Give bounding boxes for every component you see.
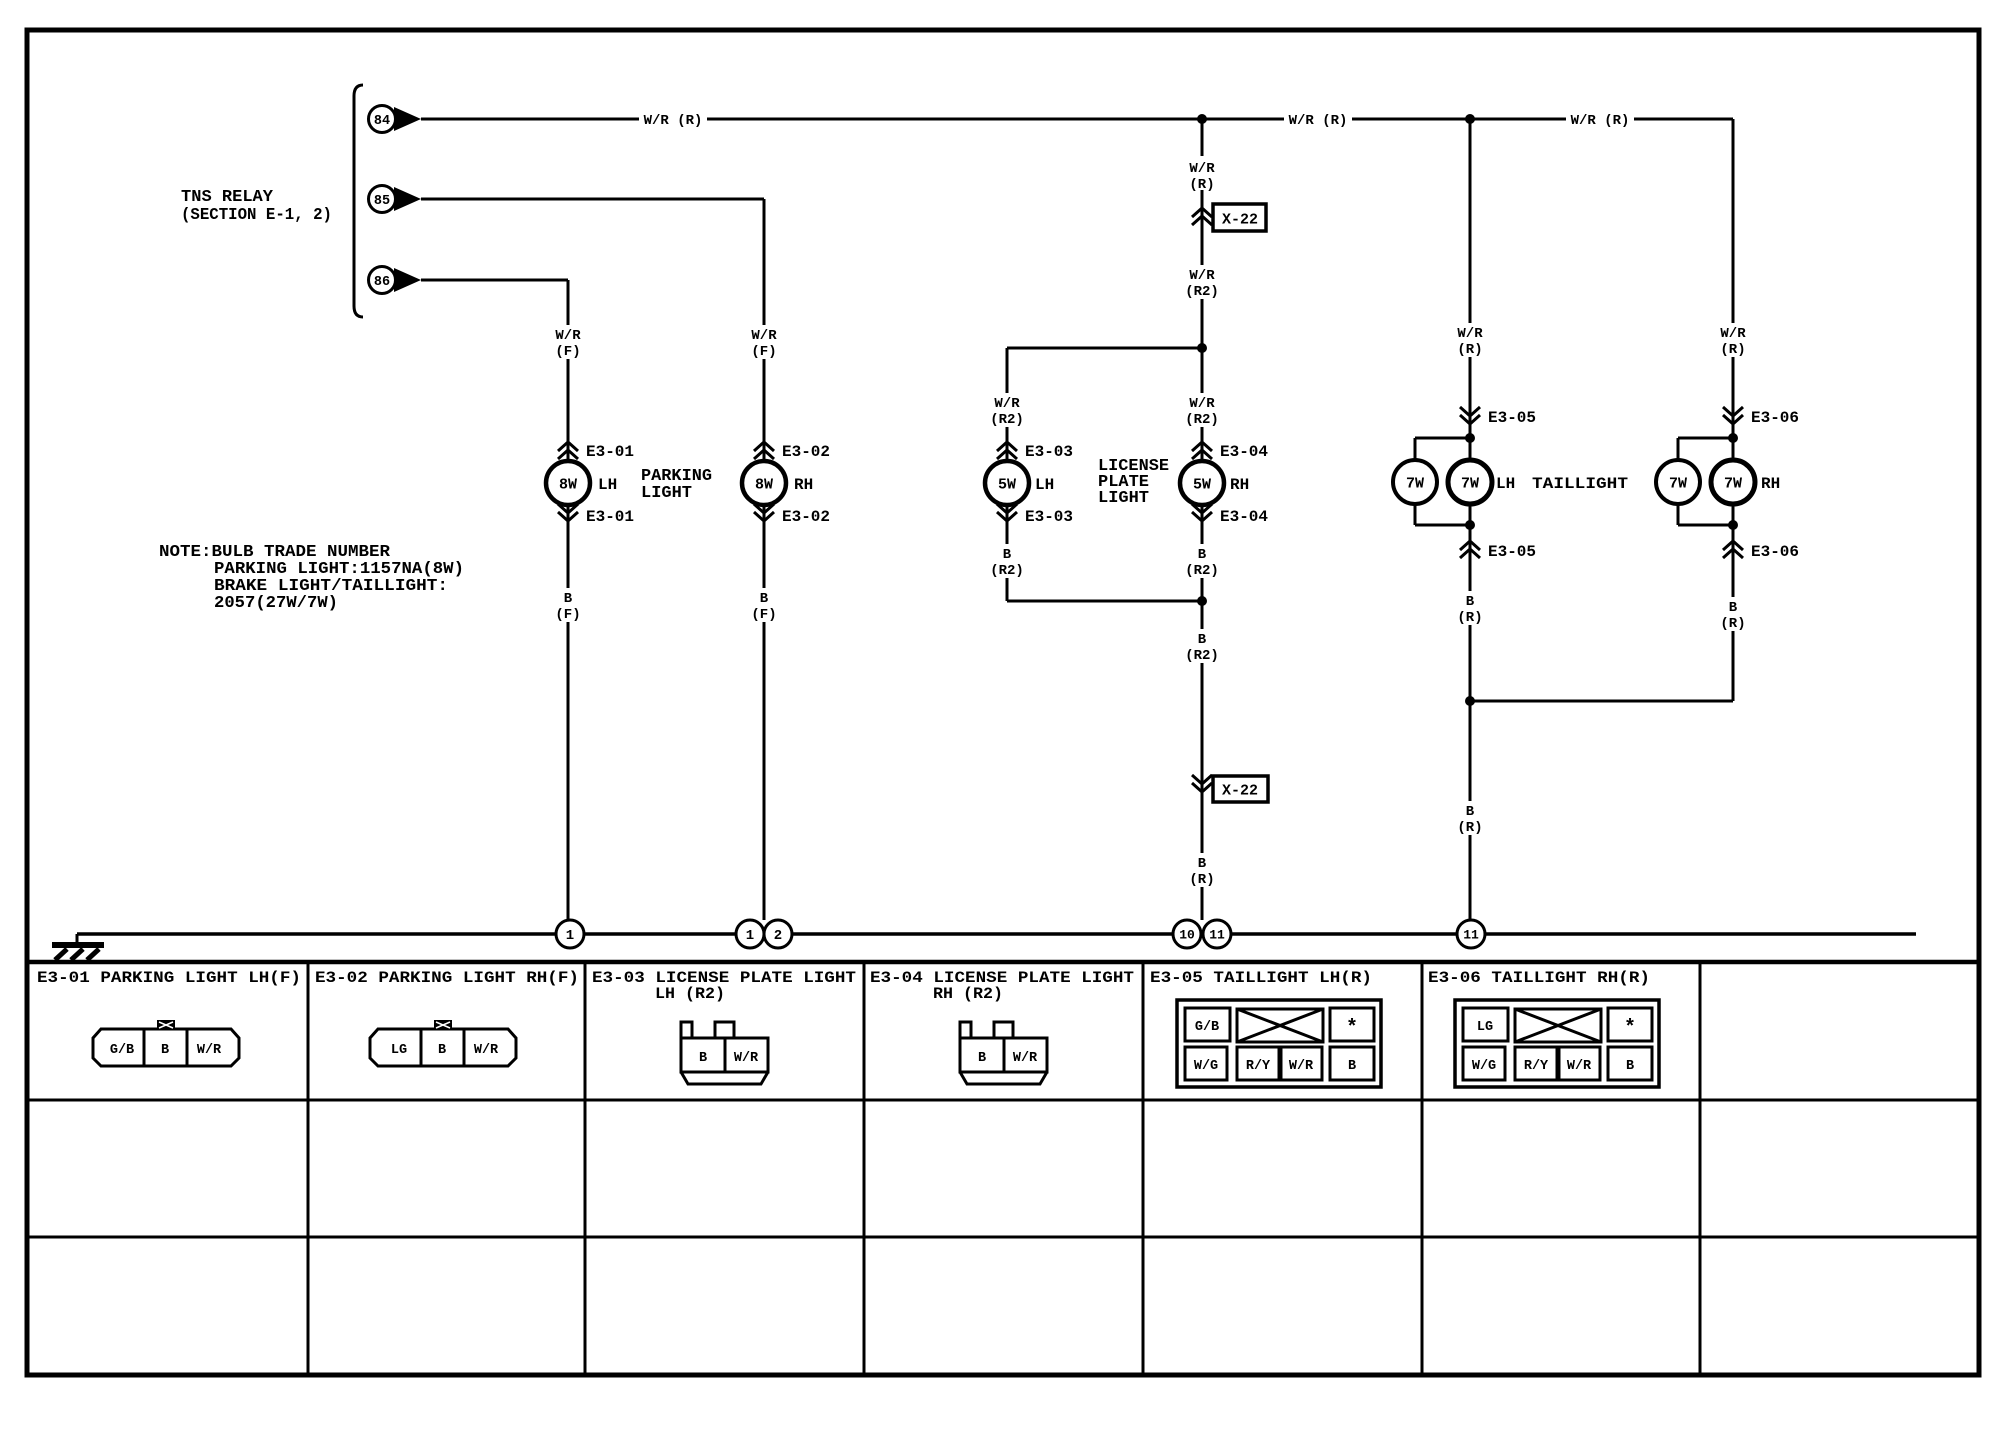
svg-text:(R2): (R2): [1185, 284, 1219, 300]
svg-text:E3-05 TAILLIGHT LH(R): E3-05 TAILLIGHT LH(R): [1150, 969, 1372, 987]
svg-text:B: B: [564, 591, 573, 607]
svg-text:W/R (R): W/R (R): [1289, 113, 1348, 129]
svg-text:*: *: [1624, 1017, 1636, 1040]
svg-text:TNS RELAY: TNS RELAY: [181, 188, 274, 207]
connector X-22 lower: [1192, 775, 1212, 784]
svg-text:(F): (F): [555, 344, 580, 360]
svg-text:W/R: W/R: [1720, 326, 1746, 342]
bulb 8W parking light RH: [742, 461, 786, 505]
svg-text:W/G: W/G: [1194, 1059, 1218, 1074]
svg-text:E3-06 TAILLIGHT RH(R): E3-06 TAILLIGHT RH(R): [1428, 969, 1650, 987]
svg-text:RH: RH: [1761, 475, 1780, 493]
junction taillight LH bulbs: [1465, 433, 1475, 443]
junction taillight RH bulbs: [1728, 433, 1738, 443]
connector E3-02 upper: [754, 442, 774, 451]
svg-text:LG: LG: [391, 1043, 407, 1058]
relay TNS (SECTION E-1,2) brace: [354, 85, 363, 317]
svg-text:(F): (F): [751, 344, 776, 360]
svg-text:W/R: W/R: [1013, 1051, 1038, 1066]
connector drawing E3-02 parking light RH: [370, 1029, 516, 1066]
svg-text:2: 2: [774, 928, 782, 944]
connector E3-05 lower: [1460, 541, 1480, 550]
svg-text:RH: RH: [794, 476, 813, 494]
svg-text:E3-01 PARKING LIGHT LH(F): E3-01 PARKING LIGHT LH(F): [37, 969, 301, 987]
connector drawing E3-04 license plate light RH: [960, 1022, 971, 1038]
svg-text:W/R: W/R: [751, 328, 777, 344]
svg-text:(R2): (R2): [990, 563, 1024, 579]
pin 85 of TNS relay: [369, 186, 396, 213]
svg-text:7W: 7W: [1724, 475, 1742, 492]
node 11 license ground: [1203, 920, 1231, 948]
connector E3-04 upper: [1192, 442, 1212, 451]
wire down to parking light RH: [763, 199, 766, 920]
svg-text:E3-02 PARKING LIGHT RH(F): E3-02 PARKING LIGHT RH(F): [315, 969, 579, 987]
bulb 7W taillight LH outer: [1393, 460, 1437, 504]
pin 84 of TNS relay: [369, 106, 396, 133]
svg-text:E3-02: E3-02: [782, 508, 830, 526]
svg-text:E3-02: E3-02: [782, 443, 830, 461]
svg-text:LIGHT: LIGHT: [1098, 489, 1149, 508]
junction taillight RH return: [1728, 520, 1738, 530]
svg-text:E3-03: E3-03: [1025, 443, 1073, 461]
svg-text:10: 10: [1179, 928, 1195, 943]
svg-text:RH (R2): RH (R2): [933, 985, 1003, 1003]
svg-text:B: B: [978, 1051, 986, 1066]
bulb 5W license plate light LH: [985, 461, 1029, 505]
svg-text:(SECTION E-1, 2): (SECTION E-1, 2): [181, 206, 332, 225]
svg-text:84: 84: [374, 114, 390, 129]
connector X-22 upper: [1192, 208, 1212, 217]
svg-text:11: 11: [1209, 928, 1225, 943]
wire W/R(F) from pin 86: [421, 279, 568, 282]
wire to second bulb RH: [1678, 437, 1733, 440]
svg-text:(R): (R): [1457, 342, 1482, 358]
wire to ground: [76, 934, 79, 944]
svg-text:B: B: [438, 1043, 446, 1058]
svg-text:(R2): (R2): [990, 412, 1024, 428]
wire license LH return to RH: [1007, 600, 1202, 603]
node 1 parking LH ground: [556, 920, 584, 948]
svg-text:W/R: W/R: [1567, 1059, 1592, 1074]
svg-text:B: B: [1198, 547, 1207, 563]
svg-text:E3-04: E3-04: [1220, 508, 1268, 526]
wire from taillight RH to LH: [1470, 700, 1733, 703]
svg-text:B: B: [1003, 547, 1012, 563]
svg-text:B: B: [1626, 1059, 1634, 1074]
svg-text:(R): (R): [1457, 820, 1482, 836]
svg-text:B: B: [1198, 856, 1207, 872]
svg-text:(R): (R): [1720, 342, 1745, 358]
pin 86 arrow: [394, 268, 421, 292]
wire from outer bulb LH down: [1414, 504, 1417, 525]
bulb 7W taillight LH inner: [1448, 460, 1492, 504]
svg-text:W/R: W/R: [555, 328, 581, 344]
svg-text:E3-06: E3-06: [1751, 543, 1799, 561]
svg-text:2057(27W/7W): 2057(27W/7W): [214, 594, 338, 613]
svg-text:(F): (F): [751, 607, 776, 623]
svg-text:W/R: W/R: [1189, 161, 1215, 177]
svg-text:RH: RH: [1230, 476, 1249, 494]
svg-text:7W: 7W: [1406, 475, 1424, 492]
connector drawing E3-01 parking light LH: [93, 1029, 239, 1066]
svg-text:8W: 8W: [755, 476, 773, 493]
ground: [52, 942, 104, 948]
junction taillight RH return joins LH: [1465, 696, 1475, 706]
svg-text:E3-05: E3-05: [1488, 543, 1536, 561]
svg-text:*: *: [1346, 1017, 1358, 1040]
svg-text:E3-05: E3-05: [1488, 409, 1536, 427]
node 10 license ground: [1173, 920, 1201, 948]
connector E3-06 upper: [1723, 407, 1743, 416]
svg-text:5W: 5W: [1193, 476, 1211, 493]
connector drawing E3-06 taillight RH: [1455, 1000, 1659, 1087]
wire down to license plate lights: [1201, 119, 1204, 920]
svg-text:1: 1: [746, 928, 754, 944]
svg-text:W/G: W/G: [1472, 1059, 1496, 1074]
bulb 7W taillight RH outer: [1656, 460, 1700, 504]
wire down to taillight LH: [1469, 119, 1472, 920]
svg-text:W/R: W/R: [474, 1043, 499, 1058]
pin 84 arrow: [394, 107, 421, 131]
svg-text:W/R: W/R: [1189, 268, 1215, 284]
connector E3-04 lower: [1192, 504, 1212, 513]
svg-text:W/R: W/R: [1289, 1059, 1314, 1074]
svg-text:B: B: [1466, 804, 1475, 820]
bulb 7W taillight RH inner: [1711, 460, 1755, 504]
svg-text:E3-03: E3-03: [1025, 508, 1073, 526]
svg-text:E3-01: E3-01: [586, 508, 634, 526]
pin 86 of TNS relay: [369, 267, 396, 294]
junction taillight LH return: [1465, 520, 1475, 530]
svg-text:W/R: W/R: [1457, 326, 1483, 342]
svg-text:G/B: G/B: [110, 1043, 134, 1058]
wire down license LH: [1006, 348, 1009, 601]
connector box X-22: [1213, 204, 1266, 231]
svg-text:86: 86: [374, 275, 390, 290]
svg-text:W/R: W/R: [197, 1043, 222, 1058]
svg-text:85: 85: [374, 194, 390, 209]
junction license branch: [1197, 343, 1207, 353]
svg-text:5W: 5W: [998, 476, 1016, 493]
wire W/R(R) from pin 84 across top: [421, 118, 1733, 121]
bulb 5W license plate light RH: [1180, 461, 1224, 505]
svg-text:E3-06: E3-06: [1751, 409, 1799, 427]
svg-text:X-22: X-22: [1222, 211, 1258, 228]
connector box X-22: [1213, 776, 1268, 802]
junction on top wire at taillight LH branch: [1465, 114, 1475, 124]
wire down to taillight RH: [1732, 119, 1735, 701]
svg-text:8W: 8W: [559, 476, 577, 493]
svg-text:E3-01: E3-01: [586, 443, 634, 461]
svg-text:X-22: X-22: [1222, 782, 1258, 799]
svg-text:(R2): (R2): [1185, 648, 1219, 664]
pin 85 arrow: [394, 187, 421, 211]
svg-text:LH (R2): LH (R2): [655, 985, 725, 1003]
svg-text:LH: LH: [1496, 475, 1515, 493]
connector E3-05 upper: [1460, 407, 1480, 416]
svg-text:(R): (R): [1720, 616, 1745, 632]
ground bus wire: [77, 932, 1916, 936]
svg-text:B: B: [161, 1043, 169, 1058]
svg-text:(R): (R): [1457, 610, 1482, 626]
wire down to parking light LH: [567, 280, 570, 920]
node 1 parking RH ground: [736, 920, 764, 948]
svg-text:W/R: W/R: [734, 1051, 759, 1066]
svg-text:TAILLIGHT: TAILLIGHT: [1532, 475, 1628, 493]
svg-text:LH: LH: [1035, 476, 1054, 494]
svg-text:G/B: G/B: [1195, 1020, 1219, 1035]
connector drawing E3-05 taillight LH: [1177, 1000, 1381, 1087]
svg-text:B: B: [760, 591, 769, 607]
connector E3-02 lower: [754, 504, 774, 513]
bulb 8W parking light LH: [546, 461, 590, 505]
svg-text:W/R (R): W/R (R): [1571, 113, 1630, 129]
svg-text:W/R: W/R: [994, 396, 1020, 412]
svg-text:7W: 7W: [1461, 475, 1479, 492]
node 2 parking RH ground: [764, 920, 792, 948]
svg-text:(R): (R): [1189, 177, 1214, 193]
svg-text:7W: 7W: [1669, 475, 1687, 492]
wire from outer bulb RH down: [1677, 504, 1680, 525]
svg-text:(R): (R): [1189, 872, 1214, 888]
connector E3-06 lower: [1723, 541, 1743, 550]
svg-text:E3-04: E3-04: [1220, 443, 1268, 461]
svg-text:(F): (F): [555, 607, 580, 623]
svg-text:B: B: [1466, 594, 1475, 610]
svg-text:R/Y: R/Y: [1524, 1059, 1549, 1074]
svg-text:LIGHT: LIGHT: [641, 484, 692, 503]
connector E3-03 upper: [997, 442, 1017, 451]
junction license return: [1197, 596, 1207, 606]
connector E3-01 lower: [558, 504, 578, 513]
wire branch to license LH: [1007, 347, 1202, 350]
svg-text:1: 1: [566, 928, 574, 944]
wire to second bulb LH: [1415, 437, 1470, 440]
svg-text:R/Y: R/Y: [1246, 1059, 1271, 1074]
svg-text:W/R (R): W/R (R): [644, 113, 703, 129]
svg-text:LH: LH: [598, 476, 617, 494]
svg-text:B: B: [1198, 632, 1207, 648]
junction on top wire at license branch: [1197, 114, 1207, 124]
svg-text:W/R: W/R: [1189, 396, 1215, 412]
connector E3-03 lower: [997, 504, 1017, 513]
svg-text:LG: LG: [1477, 1020, 1493, 1035]
connector table grid: [27, 960, 1979, 965]
connector drawing E3-03 license plate light LH: [681, 1022, 692, 1038]
svg-text:B: B: [1348, 1059, 1356, 1074]
svg-text:B: B: [699, 1051, 707, 1066]
svg-text:(R2): (R2): [1185, 563, 1219, 579]
svg-text:11: 11: [1463, 928, 1479, 943]
svg-text:B: B: [1729, 600, 1738, 616]
node 11 taillight ground: [1457, 920, 1485, 948]
wire W/R(F) from pin 85: [421, 198, 764, 201]
connector E3-01 upper: [558, 442, 578, 451]
svg-text:(R2): (R2): [1185, 412, 1219, 428]
